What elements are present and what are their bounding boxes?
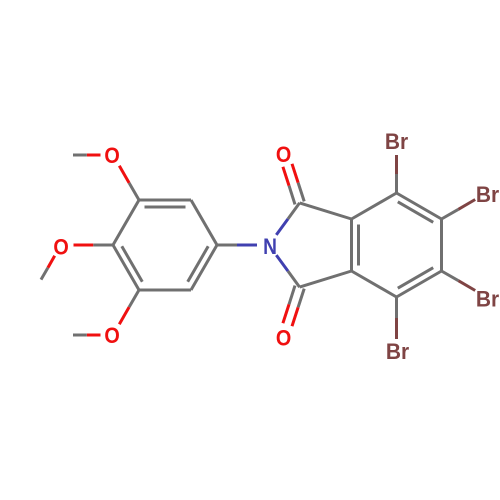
svg-text:O: O bbox=[276, 143, 291, 167]
wire C3-C4 phenyl bbox=[113, 200, 139, 245]
wire Cbot-C7a bbox=[300, 271, 352, 287]
wire C4=C5 phenyl outer bbox=[113, 245, 139, 290]
double bond C=O top bbox=[298, 183, 304, 202]
wire C5-C6 phenyl bbox=[139, 289, 191, 292]
svg-text:Br: Br bbox=[386, 340, 410, 365]
wire C6b=C7b benzo outer bbox=[397, 271, 442, 297]
wire C4=C5 phenyl inner bbox=[122, 246, 143, 281]
svg-text:O: O bbox=[104, 144, 119, 168]
bond N-C(=O) top bbox=[276, 219, 288, 235]
wire C4b=C5b benzo outer bbox=[397, 193, 442, 219]
bond N-C(=O) bottom bbox=[276, 255, 288, 271]
bond C1-N bbox=[217, 244, 237, 247]
bond C-Br2 bbox=[442, 209, 459, 219]
wire C7a=C3a fused inner bbox=[357, 225, 360, 266]
bond O3-CH3 bbox=[87, 334, 101, 337]
wire C2=C3 phenyl outer bbox=[139, 199, 191, 202]
bond C5-O3 methoxy bottom bbox=[129, 290, 139, 307]
bond C4-O2 methoxy middle bbox=[93, 244, 113, 247]
svg-text:Br: Br bbox=[385, 130, 409, 155]
double bond C=O bottom bbox=[289, 286, 295, 305]
svg-text:O: O bbox=[53, 235, 68, 259]
wire Ctop-C3a bbox=[300, 203, 352, 219]
wire C4b=C5b benzo inner bbox=[398, 202, 433, 223]
wire C6b=C7b benzo inner bbox=[398, 268, 433, 289]
wire C2=C3 phenyl inner bbox=[145, 206, 186, 209]
bond C-Br4 bbox=[395, 297, 398, 318]
wire C1-C2 phenyl bbox=[191, 200, 217, 245]
bond C-Br3 bbox=[442, 271, 459, 281]
svg-text:N: N bbox=[263, 235, 277, 260]
wire C6=C1 phenyl outer bbox=[191, 245, 217, 290]
bond C3-O1 methoxy top bbox=[129, 183, 139, 200]
wire C6=C1 phenyl inner bbox=[188, 246, 209, 281]
svg-text:Br: Br bbox=[476, 183, 500, 208]
svg-text:O: O bbox=[104, 324, 119, 348]
svg-text:Br: Br bbox=[476, 287, 500, 312]
wire C7b-C7a benzo bbox=[352, 271, 397, 297]
wire C5b-C6b benzo bbox=[440, 219, 443, 271]
bond C-Br1 bbox=[395, 174, 398, 193]
bond O2-CH3 bbox=[48, 256, 55, 268]
svg-text:O: O bbox=[276, 327, 291, 351]
wire C3a-C4b benzo bbox=[352, 193, 397, 219]
wire C7a=C3a fused outer bbox=[350, 219, 353, 271]
bond O1-CH3 bbox=[87, 154, 101, 157]
